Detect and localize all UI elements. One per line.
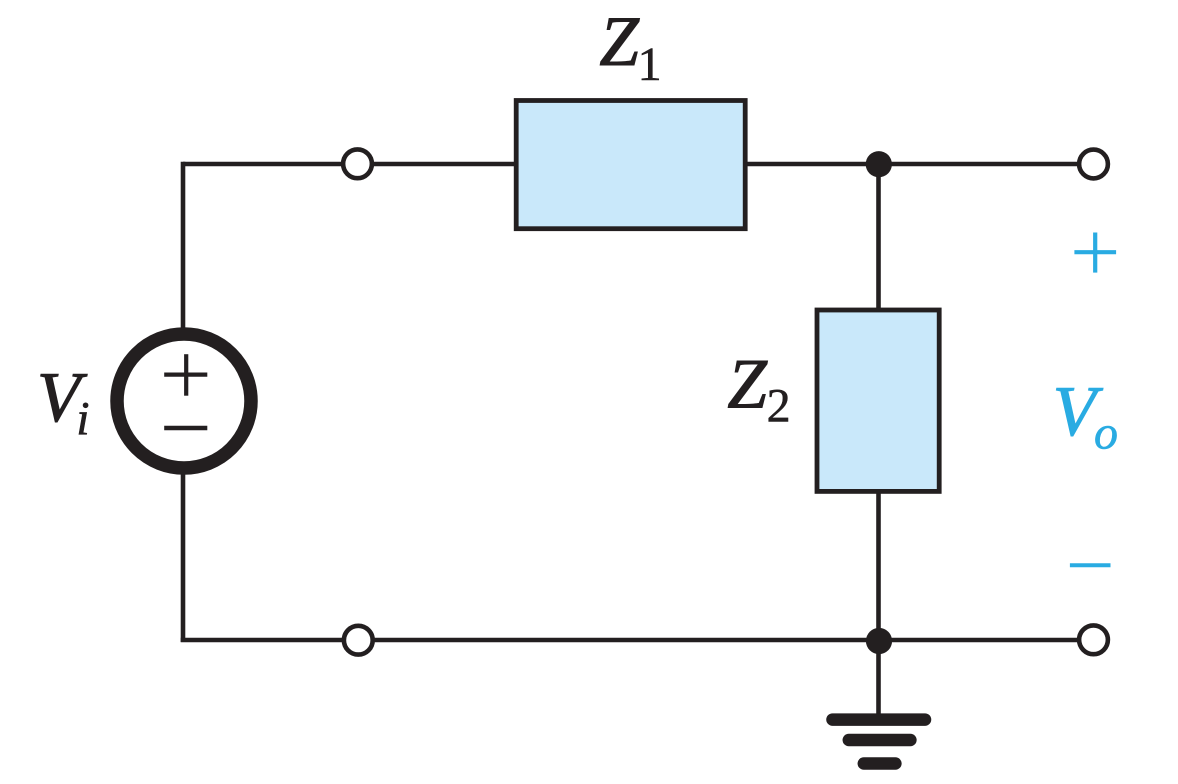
label Z1 bbox=[599, 3, 661, 91]
wire left vertical lower: source bottom down to bottom corner bbox=[181, 466, 186, 642]
svg-text:o: o bbox=[1094, 407, 1118, 460]
wire middle vertical upper: node A down to Z2 top bbox=[876, 164, 881, 310]
svg-text:Z: Z bbox=[599, 3, 640, 81]
svg-text:Z: Z bbox=[727, 346, 768, 424]
svg-text:1: 1 bbox=[638, 38, 662, 91]
source Vi: independent voltage source circle bbox=[117, 334, 251, 468]
svg-text:2: 2 bbox=[767, 379, 791, 432]
node B: junction of Z2, ground and bottom rail bbox=[866, 628, 892, 654]
label - output polarity (cyan) bbox=[1070, 563, 1111, 567]
impedance Z2: shunt box bbox=[817, 310, 939, 491]
terminal: input top open circle bbox=[343, 149, 372, 178]
terminal: input bottom open circle bbox=[344, 626, 373, 655]
label Z2 bbox=[727, 346, 790, 433]
terminal: output bottom open circle bbox=[1079, 625, 1108, 654]
impedance Z1: series box bbox=[516, 101, 745, 229]
label Vo (cyan output voltage) bbox=[1053, 373, 1118, 460]
terminal: output top open circle bbox=[1079, 150, 1108, 179]
wire ground stub: node B down to ground bbox=[876, 640, 881, 719]
svg-text:i: i bbox=[76, 393, 89, 446]
label + output polarity (cyan) bbox=[1074, 233, 1116, 273]
label Vi bbox=[37, 359, 90, 446]
node A: junction of Z1, Z2 and output top bbox=[866, 151, 892, 177]
wire middle vertical lower: Z2 bottom down to node B bbox=[876, 491, 881, 640]
wire bottom rail: left corner to output terminal bbox=[181, 638, 1094, 643]
ground symbol bbox=[833, 720, 926, 764]
wire left vertical upper: corner down to source top bbox=[181, 162, 186, 336]
wire top rail: left corner to output terminal bbox=[183, 162, 1094, 167]
